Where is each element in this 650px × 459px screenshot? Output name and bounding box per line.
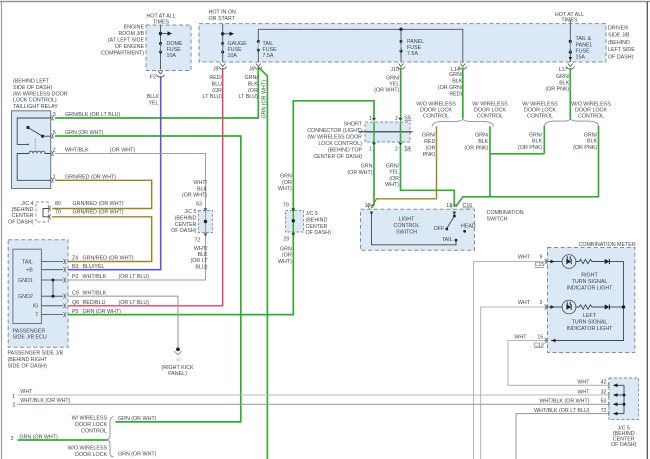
fuse TAIL FUSE 7.5A xyxy=(257,40,260,62)
svg-text:GRN: GRN xyxy=(361,164,373,170)
svg-text:DOOR LOCK: DOOR LOCK xyxy=(75,452,107,458)
wire WHT meter pin3 down page xyxy=(481,307,548,459)
svg-text:SWITCH: SWITCH xyxy=(396,229,417,235)
short connector pin labels xyxy=(369,115,412,152)
label J6 xyxy=(249,66,255,72)
engine room J/B box xyxy=(146,25,191,71)
wire GRN/RED L14 W/O wireless branch to switch pin10 xyxy=(372,126,437,206)
svg-text:(OR: (OR xyxy=(389,176,399,182)
svg-text:(OR WHT): (OR WHT) xyxy=(110,148,135,154)
label pin 10 xyxy=(365,203,371,209)
svg-text:WHT: WHT xyxy=(577,389,590,395)
label TAIL &amp; PANEL FUSE 15A xyxy=(576,36,593,60)
fuse PANEL FUSE 7.5A xyxy=(400,40,403,53)
svg-text:TURN SIGNAL: TURN SIGNAL xyxy=(572,319,608,325)
label GRN/BLK (OR PNK) (L14 W/ branch) xyxy=(464,133,488,152)
fuse DOME FUSE 10A xyxy=(159,42,162,54)
wire RED/BLU fuse J9 to ECU Q6 xyxy=(68,68,223,306)
svg-text:10A: 10A xyxy=(228,53,238,59)
ground at right kick panel xyxy=(174,347,181,361)
svg-text:L17: L17 xyxy=(559,67,568,73)
right turn signal indicator light lamp xyxy=(548,255,576,269)
svg-text:WHT/BLK (OR LT BLU): WHT/BLK (OR LT BLU) xyxy=(534,408,590,414)
fuse GAUGE FUSE 10A xyxy=(221,42,224,54)
svg-text:RED/BLU: RED/BLU xyxy=(83,300,106,306)
svg-text:29: 29 xyxy=(283,236,289,242)
label RIGHT KICK PANEL xyxy=(161,365,193,377)
wire GRN/BLK L14 W/ wireless branch xyxy=(489,126,491,197)
svg-text:COMBINATION METER: COMBINATION METER xyxy=(579,242,636,248)
svg-text:53: 53 xyxy=(601,399,607,405)
svg-text:SHORT: SHORT xyxy=(343,121,362,127)
svg-text:LOCK CONTROL): LOCK CONTROL) xyxy=(318,141,362,147)
wire GRN/BLK relay pin3 to fuse J6 xyxy=(55,67,258,118)
junction connector J/C5 79/29 xyxy=(286,208,304,236)
svg-text:BLK: BLK xyxy=(559,80,569,86)
svg-text:CENTER: CENTER xyxy=(306,224,328,230)
svg-text:CONTROL: CONTROL xyxy=(81,428,107,434)
svg-text:INDICATOR LIGHT: INDICATOR LIGHT xyxy=(567,286,614,292)
left indicator resistor xyxy=(576,305,605,309)
wire GRN/RED relay pin1 to J/C4 pin80 xyxy=(52,180,152,208)
svg-text:LT BLU): LT BLU) xyxy=(203,94,223,100)
svg-text:DOOR LOCK: DOOR LOCK xyxy=(575,108,607,114)
relay wire labels xyxy=(65,112,135,180)
label TAILLIGHT RELAY xyxy=(13,79,68,110)
svg-text:SIDE OF DASH): SIDE OF DASH) xyxy=(13,85,52,91)
svg-text:OFF: OFF xyxy=(434,226,445,232)
label DOME FUSE 10A xyxy=(167,41,183,59)
wire WHT row1 to J/C5 pin32 xyxy=(17,394,609,396)
svg-text:72: 72 xyxy=(601,408,607,414)
ECU internal labels xyxy=(18,259,39,318)
frame left border xyxy=(1,2,3,459)
svg-text:LOCK CONTROL): LOCK CONTROL) xyxy=(13,98,57,104)
wire WHT meter pin15 to J/C5 pin42 xyxy=(508,341,609,386)
junction connector J/C5 63/72 xyxy=(199,206,213,237)
label J9 xyxy=(213,66,219,72)
svg-text:(W/ WIRELESS DOOR: (W/ WIRELESS DOOR xyxy=(13,91,68,97)
svg-text:1: 1 xyxy=(369,116,372,122)
J/C4 pin numbers and wire labels xyxy=(55,201,124,215)
svg-text:CONTROL: CONTROL xyxy=(578,114,604,120)
svg-text:FUSE: FUSE xyxy=(576,48,591,54)
label GRN (OR WHT) W/ wireless xyxy=(118,416,157,422)
svg-text:3: 3 xyxy=(53,112,56,118)
svg-text:(OR LT BLU): (OR LT BLU) xyxy=(119,274,150,280)
label GRN/BLK (OR PNK) under L17 xyxy=(545,74,569,93)
passenger side J/B outer box xyxy=(8,240,68,348)
svg-text:CONTROL: CONTROL xyxy=(477,114,503,120)
label pin 13 and C16 xyxy=(446,203,473,209)
svg-text:CENTER OF DASH): CENTER OF DASH) xyxy=(313,154,362,160)
svg-text:WHT/BLK: WHT/BLK xyxy=(65,148,89,154)
svg-text:GRN/: GRN/ xyxy=(584,132,598,138)
svg-text:SIDE J/B ECU: SIDE J/B ECU xyxy=(13,335,47,341)
label PANEL FUSE 7.5A xyxy=(407,39,424,57)
switch pin13 connector xyxy=(451,204,457,209)
meter pin9 labels xyxy=(518,254,544,268)
svg-text:TIMES: TIMES xyxy=(153,19,170,25)
svg-text:7.5A: 7.5A xyxy=(263,53,274,59)
svg-text:5: 5 xyxy=(53,130,56,136)
svg-text:GRN: GRN xyxy=(280,174,292,180)
svg-text:(OR: (OR xyxy=(248,88,258,94)
svg-text:32: 32 xyxy=(601,389,607,395)
svg-text:GRN/RED (OR WHT): GRN/RED (OR WHT) xyxy=(65,175,116,181)
switch position labels xyxy=(434,224,476,243)
svg-text:INDICATOR LIGHT: INDICATOR LIGHT xyxy=(567,326,614,332)
svg-text:PNK): PNK) xyxy=(423,152,436,158)
svg-text:Q6: Q6 xyxy=(72,300,79,306)
svg-text:GRN/RED (OR WHT): GRN/RED (OR WHT) xyxy=(73,201,124,207)
svg-text:WHT: WHT xyxy=(518,300,531,306)
svg-text:1: 1 xyxy=(53,175,56,181)
label GRN/YEL (OR WHT) under J10 xyxy=(374,75,400,93)
bottom left row labels xyxy=(11,389,71,442)
svg-text:2: 2 xyxy=(395,146,398,152)
brace split bottom left row3 xyxy=(107,417,113,458)
svg-text:J6: J6 xyxy=(249,66,255,72)
svg-text:OF DASH): OF DASH) xyxy=(8,219,34,225)
svg-text:J10: J10 xyxy=(390,67,399,73)
svg-text:J9: J9 xyxy=(213,66,219,72)
label TAIL FUSE 7.5A xyxy=(263,41,278,59)
label W/O WIRELESS DOOR LOCK bottom xyxy=(67,445,107,458)
wire GRN/YEL fuse J10 to short connector pin2 xyxy=(400,68,402,118)
label J10 xyxy=(390,67,399,73)
label 63 xyxy=(196,201,202,207)
panel fuse branch xyxy=(400,29,402,62)
label J/C 5 (63/72) xyxy=(171,209,197,234)
svg-text:LEFT: LEFT xyxy=(583,313,597,319)
svg-text:(OR: (OR xyxy=(212,88,222,94)
svg-text:(W/ WIRELESS DOOR: (W/ WIRELESS DOOR xyxy=(307,134,362,140)
svg-text:LEFT SIDE: LEFT SIDE xyxy=(608,47,635,53)
wire GRN W/ wireless interconnect xyxy=(490,153,544,155)
connector L17 xyxy=(566,64,574,69)
wire GRN L17 stem xyxy=(569,68,571,120)
label W/O WIRELESS DOOR LOCK CONTROL (L14 left) xyxy=(416,101,456,119)
wire GRN/BLK L17 W/ wireless branch xyxy=(543,126,545,154)
wire GRN row3 to brace xyxy=(18,439,108,441)
svg-text:(OR: (OR xyxy=(426,146,436,152)
label GRN (OR WHT) rotated xyxy=(262,80,268,119)
svg-text:(OR LT: (OR LT xyxy=(191,258,209,264)
svg-text:9: 9 xyxy=(540,254,543,260)
svg-text:(OR PNK): (OR PNK) xyxy=(464,145,488,151)
svg-text:GRN: GRN xyxy=(280,246,292,252)
label W/ WIRELESS DOOR LOCK CONTROL bottom xyxy=(72,415,108,434)
passenger side J/B ECU inner box xyxy=(13,249,42,323)
short connector S5/S4 xyxy=(359,118,413,146)
svg-text:80: 80 xyxy=(55,201,61,207)
svg-text:OF DASH): OF DASH) xyxy=(608,54,634,60)
label W/ WIRELESS DOOR LOCK CONTROL (L14 right) xyxy=(472,101,508,119)
svg-text:RED/: RED/ xyxy=(209,75,222,81)
svg-text:YEL: YEL xyxy=(389,170,399,176)
svg-text:TURN SIGNAL: TURN SIGNAL xyxy=(572,279,608,285)
svg-text:WHT): WHT) xyxy=(385,182,399,188)
svg-text:3: 3 xyxy=(11,436,14,442)
label COMBINATION SWITCH xyxy=(487,210,524,222)
wire WHT meter pin9 down page xyxy=(474,262,548,459)
wire GRN fuse J6 right branch down page xyxy=(258,67,267,459)
engine room J/B feed wire xyxy=(159,25,172,70)
svg-text:79: 79 xyxy=(283,202,289,208)
svg-text:(OR WHT): (OR WHT) xyxy=(374,88,399,94)
svg-text:63: 63 xyxy=(196,201,202,207)
svg-text:OF DASH): OF DASH) xyxy=(306,230,332,236)
wire GRN/YEL short connector S4 pin2 to switch pin13 xyxy=(401,146,455,207)
svg-text:13: 13 xyxy=(446,203,452,209)
svg-text:1: 1 xyxy=(369,146,372,152)
svg-text:SWITCH: SWITCH xyxy=(487,216,508,222)
svg-text:TAIL: TAIL xyxy=(442,237,453,243)
label LIGHT CONTROL SWITCH xyxy=(394,216,420,235)
meter pin15 labels xyxy=(514,334,543,348)
tail &amp; panel fuse feed xyxy=(569,20,571,62)
labels around J/C5 79/29 xyxy=(278,174,331,266)
svg-text:(BEHIND: (BEHIND xyxy=(608,40,630,46)
svg-text:(OR PNK): (OR PNK) xyxy=(518,145,542,151)
wire GRN ECU P5 up through J/C5 to short connector pin1 xyxy=(68,101,374,315)
wire GRN L14 stem xyxy=(462,68,464,119)
svg-text:DOOR LOCK: DOOR LOCK xyxy=(75,422,107,428)
svg-text:GRN/: GRN/ xyxy=(449,72,463,78)
connector L14 xyxy=(459,64,467,69)
wire BLU/YEL fuse F2 to ECU B3 xyxy=(68,77,161,270)
meter common return line to pin15 xyxy=(551,262,625,343)
svg-text:GRN/: GRN/ xyxy=(529,132,543,138)
svg-text:GRN/BLK (OR LT BLU): GRN/BLK (OR LT BLU) xyxy=(65,112,120,118)
svg-text:GND1: GND1 xyxy=(18,278,33,284)
svg-text:HOT IN ON: HOT IN ON xyxy=(209,9,236,15)
svg-text:GRN/: GRN/ xyxy=(245,75,259,81)
svg-text:WHT/BLK (OR WHT): WHT/BLK (OR WHT) xyxy=(539,399,589,405)
svg-text:10A: 10A xyxy=(167,53,177,59)
svg-text:GRN/RED (OR WHT): GRN/RED (OR WHT) xyxy=(73,209,124,215)
svg-text:(RIGHT KICK: (RIGHT KICK xyxy=(161,365,193,371)
svg-text:WHT/: WHT/ xyxy=(194,246,208,252)
svg-text:TAILLIGHT RELAY: TAILLIGHT RELAY xyxy=(13,104,58,110)
label GRN/BLK (OR LT BLU) under J6 xyxy=(239,75,259,100)
label COMBINATION METER xyxy=(579,242,636,248)
svg-text:(BEHIND: (BEHIND xyxy=(306,218,328,224)
label BLU/YEL xyxy=(147,94,159,106)
svg-text:GRN/: GRN/ xyxy=(556,74,570,80)
svg-text:WHT/BLK: WHT/BLK xyxy=(83,274,107,280)
junction connector J/C4 xyxy=(36,202,51,222)
label HOT IN ON OR START xyxy=(209,9,236,22)
svg-text:BLK: BLK xyxy=(452,78,462,84)
svg-text:HEAD: HEAD xyxy=(461,224,476,230)
svg-text:DOOR LOCK: DOOR LOCK xyxy=(474,108,506,114)
label WHT/BLK (OR LT BLU) below J/C5 72 xyxy=(191,246,209,270)
svg-text:BLK: BLK xyxy=(248,81,258,87)
svg-text:3: 3 xyxy=(540,300,543,306)
svg-text:TAIL: TAIL xyxy=(22,259,33,265)
relay pin connectors 3,5,2,1 xyxy=(51,116,54,183)
svg-text:CENTER: CENTER xyxy=(12,213,34,219)
svg-text:GND2: GND2 xyxy=(18,294,33,300)
svg-text:WHT/BLK (OR WHT): WHT/BLK (OR WHT) xyxy=(20,398,70,404)
svg-text:(BEHIND LEFT: (BEHIND LEFT xyxy=(13,79,50,85)
label HOT AT ALL TIMES (engine room) xyxy=(146,14,175,26)
taillight relay xyxy=(12,111,51,189)
wire WHT/BLK row2 to J/C5 pin53 xyxy=(17,403,609,405)
svg-text:CONNECTOR (LIGHT): CONNECTOR (LIGHT) xyxy=(307,128,362,134)
svg-text:DRIVER: DRIVER xyxy=(608,26,628,32)
svg-text:Z4: Z4 xyxy=(72,256,78,262)
svg-text:OF ENGINE: OF ENGINE xyxy=(115,44,145,50)
label W/O WIRELESS DOOR LOCK CONTROL (L17 right) xyxy=(571,101,611,119)
svg-text:2: 2 xyxy=(53,148,56,154)
svg-text:BLU/YEL: BLU/YEL xyxy=(83,264,105,270)
svg-text:(OR WHT): (OR WHT) xyxy=(182,193,207,199)
label GRN/BLK (OR PNK) L17 right branch xyxy=(573,132,597,151)
svg-text:BLU: BLU xyxy=(212,81,222,87)
switch internals OFF TAIL HEAD xyxy=(372,215,467,245)
svg-text:10: 10 xyxy=(365,203,371,209)
label J/C 5 (bottom right) xyxy=(611,425,637,448)
wire WHT/BLK ECU C9 to ground xyxy=(68,296,178,347)
svg-text:IG: IG xyxy=(33,304,39,310)
svg-text:(OR PNK): (OR PNK) xyxy=(573,145,597,151)
svg-text:OF DASH): OF DASH) xyxy=(611,442,637,448)
label W/ WIRELESS DOOR LOCK CONTROL (L17 left) xyxy=(522,101,558,119)
svg-text:42: 42 xyxy=(601,380,607,386)
connector F2 xyxy=(157,71,165,77)
svg-text:15A: 15A xyxy=(576,55,586,61)
switch pin13 entry xyxy=(453,212,457,216)
junction connector J/C5 42/32/53/72 xyxy=(608,378,639,420)
svg-text:7.5A: 7.5A xyxy=(407,51,418,57)
label PASSENGER SIDE J/B xyxy=(8,351,64,370)
svg-text:CONTROL: CONTROL xyxy=(423,114,449,120)
combination meter box xyxy=(548,248,635,353)
svg-text:W/ WIRELESS: W/ WIRELESS xyxy=(472,101,508,107)
svg-text:C9: C9 xyxy=(72,290,79,296)
svg-text:TAIL &: TAIL & xyxy=(576,36,592,42)
svg-text:2: 2 xyxy=(395,116,398,122)
svg-text:BLK: BLK xyxy=(197,186,207,192)
svg-text:YEL: YEL xyxy=(148,100,158,106)
wire GRN/BLK L17 W/O wireless branch to switch pin13 xyxy=(456,126,599,207)
svg-text:RED: RED xyxy=(424,139,435,145)
svg-text:(BEHIND RIGHT: (BEHIND RIGHT xyxy=(8,357,49,363)
svg-text:WHT/BLK: WHT/BLK xyxy=(83,290,107,296)
label SHORT CONNECTOR (LIGHT) xyxy=(307,121,363,160)
svg-text:+B: +B xyxy=(26,268,33,274)
gauge fuse feed xyxy=(221,24,234,62)
svg-text:W/ WIRELESS: W/ WIRELESS xyxy=(72,415,108,421)
frame right border xyxy=(646,2,648,459)
left indicator diode xyxy=(605,304,624,309)
svg-text:LT BLU): LT BLU) xyxy=(239,94,259,100)
svg-text:GRN (OR WHT): GRN (OR WHT) xyxy=(262,80,268,119)
relay pin numbers xyxy=(53,112,56,180)
driver side J/B big box xyxy=(199,24,606,62)
svg-text:15: 15 xyxy=(537,334,543,340)
left turn signal indicator light lamp xyxy=(548,300,576,314)
label GRN/BLK (OR PNK) L17 left branch xyxy=(518,132,542,151)
svg-text:PASSENGER: PASSENGER xyxy=(13,328,46,334)
svg-text:GRN/: GRN/ xyxy=(475,133,489,139)
labels below short connector xyxy=(347,163,399,188)
svg-text:GRN/: GRN/ xyxy=(386,75,400,81)
svg-text:GRN (OR WHT): GRN (OR WHT) xyxy=(118,451,157,457)
ECU pin names xyxy=(72,256,79,315)
svg-text:(OR WHT): (OR WHT) xyxy=(347,170,372,176)
right indicator resistor xyxy=(576,259,605,263)
wire GRN relay pin5 down to W/ wireless row xyxy=(55,136,241,422)
wire WHT/BLK relay pin2 through J/C5 to ECU P2 xyxy=(55,154,206,281)
svg-text:CONTROL: CONTROL xyxy=(527,114,553,120)
svg-text:RIGHT: RIGHT xyxy=(581,273,598,279)
svg-text:SIDE OF DASH): SIDE OF DASH) xyxy=(8,363,47,369)
switch pin10 connector xyxy=(368,204,374,209)
label PASSENGER SIDE J/B ECU xyxy=(13,328,47,340)
meter pin3 labels xyxy=(518,300,543,306)
svg-text:WHT): WHT) xyxy=(278,186,292,192)
right indicator diode xyxy=(605,259,624,264)
svg-text:BLK: BLK xyxy=(478,139,488,145)
svg-text:CONTROL: CONTROL xyxy=(394,223,420,229)
svg-text:ROOM J/B: ROOM J/B xyxy=(118,31,144,37)
svg-text:GRN (OR WHT): GRN (OR WHT) xyxy=(19,434,58,440)
svg-text:P5: P5 xyxy=(72,309,79,315)
frame top border xyxy=(0,1,650,3)
label J/C 4 xyxy=(8,201,34,226)
label GAUGE FUSE 10A xyxy=(228,41,248,59)
light control switch box xyxy=(361,209,475,250)
svg-text:WHT): WHT) xyxy=(278,259,292,265)
connector J6 xyxy=(254,64,262,69)
svg-text:BLK: BLK xyxy=(532,139,542,145)
svg-text:J/C 5: J/C 5 xyxy=(306,211,318,217)
fuse TAIL &amp; PANEL FUSE 15A xyxy=(569,40,572,60)
svg-text:RED): RED) xyxy=(449,91,462,97)
svg-text:(OR: (OR xyxy=(282,253,292,259)
label RED/BLU (OR LT BLU) xyxy=(203,75,223,100)
wire GRN/RED J/C4 pin70 to ECU Z4 xyxy=(52,217,152,262)
wire WHT/BLK J/C5 pin72 down page xyxy=(516,414,609,459)
svg-text:TIMES: TIMES xyxy=(561,18,578,24)
svg-text:PASSENGER SIDE J/B: PASSENGER SIDE J/B xyxy=(8,351,64,357)
svg-text:BLU): BLU) xyxy=(195,264,207,270)
svg-text:W/O WIRELESS: W/O WIRELESS xyxy=(67,445,107,451)
svg-text:J/C 5: J/C 5 xyxy=(184,209,196,215)
svg-text:DOOR LOCK: DOOR LOCK xyxy=(524,108,556,114)
svg-text:GRN/: GRN/ xyxy=(422,133,436,139)
svg-text:GRN (OR WHT): GRN (OR WHT) xyxy=(118,416,157,422)
svg-text:(BEHIND: (BEHIND xyxy=(12,207,34,213)
label DRIVER SIDE J/B xyxy=(608,26,635,61)
svg-text:WHT: WHT xyxy=(518,254,531,260)
label F2 xyxy=(150,74,156,80)
svg-text:GRN (OR WHT): GRN (OR WHT) xyxy=(83,309,122,315)
svg-text:(OR: (OR xyxy=(282,180,292,186)
svg-text:PANEL: PANEL xyxy=(576,42,593,48)
svg-text:ENGINE: ENGINE xyxy=(124,24,145,30)
svg-text:(OR LT BLU): (OR LT BLU) xyxy=(119,300,150,306)
svg-text:P2: P2 xyxy=(72,274,79,280)
label ENGINE ROOM J/B xyxy=(101,24,144,56)
connector J10 xyxy=(397,64,405,69)
svg-text:DOOR LOCK: DOOR LOCK xyxy=(420,108,452,114)
svg-text:PANEL): PANEL) xyxy=(168,371,187,377)
